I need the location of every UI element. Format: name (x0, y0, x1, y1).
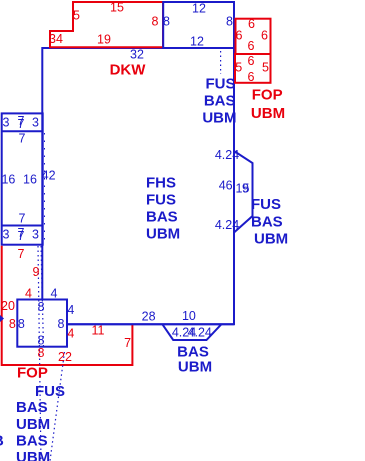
svg-text:UBM: UBM (202, 109, 236, 126)
svg-text:DKW: DKW (110, 61, 147, 78)
svg-text:3: 3 (3, 116, 10, 130)
svg-text:3: 3 (3, 228, 10, 242)
wire: main bottom edge over red (67, 323, 234, 325)
mark: clipped blue triangle at left edge (0, 315, 4, 322)
svg-text:8: 8 (226, 15, 233, 29)
building outline: bottom red shape (FOP) (2, 246, 133, 365)
svg-text:11: 11 (92, 324, 105, 338)
svg-text:FUS: FUS (251, 196, 281, 213)
svg-text:BAS: BAS (146, 208, 178, 225)
svg-text:42: 42 (42, 169, 56, 183)
building outline: bottom trapezoid (162, 324, 221, 340)
svg-text:12: 12 (192, 2, 206, 16)
svg-text:UBM: UBM (178, 358, 212, 375)
svg-text:4: 4 (25, 287, 32, 301)
svg-text:4: 4 (51, 287, 58, 301)
leader dotted line: along left column right edge (44, 133, 46, 244)
svg-text:UBM: UBM (16, 449, 50, 461)
svg-text:32: 32 (130, 48, 144, 62)
wire: band divider 2 (2, 225, 43, 227)
svg-text:34: 34 (49, 32, 63, 46)
svg-text:FOP: FOP (252, 86, 283, 103)
svg-text:19: 19 (97, 33, 111, 47)
svg-text:BAS: BAS (16, 432, 48, 449)
svg-text:8: 8 (152, 15, 159, 29)
svg-text:15: 15 (110, 1, 124, 15)
svg-text:4.24: 4.24 (215, 218, 239, 232)
svg-text:12: 12 (190, 35, 204, 49)
svg-text:9: 9 (33, 265, 40, 279)
building outline: top red L-shape (DKW) (50, 2, 163, 47)
building outline: main blue (FHS FUS BAS UBM) (42, 48, 234, 324)
svg-text:7: 7 (18, 117, 25, 131)
svg-text:8: 8 (18, 317, 25, 331)
svg-text:BAS: BAS (251, 213, 283, 230)
svg-text:5: 5 (73, 9, 80, 23)
svg-text:8: 8 (38, 300, 45, 314)
svg-text:8: 8 (58, 317, 65, 331)
svg-text:6: 6 (248, 17, 255, 31)
svg-text:UBM: UBM (146, 225, 180, 242)
svg-text:BAS: BAS (204, 92, 236, 109)
svg-text:5: 5 (235, 60, 242, 74)
svg-text:10: 10 (182, 309, 196, 323)
leader dotted line: L1b (41, 246, 44, 347)
svg-text:6: 6 (261, 29, 268, 43)
svg-text:16: 16 (23, 173, 37, 187)
svg-text:7: 7 (19, 132, 26, 146)
svg-text:20: 20 (1, 299, 15, 313)
svg-text:B: B (0, 432, 4, 449)
svg-text:4: 4 (67, 327, 74, 341)
svg-text:4.24: 4.24 (215, 148, 239, 162)
svg-text:7: 7 (124, 336, 131, 350)
svg-text:8: 8 (163, 15, 170, 29)
svg-text:9: 9 (242, 181, 249, 195)
svg-text:FHS: FHS (146, 174, 176, 191)
svg-text:6: 6 (248, 70, 255, 84)
svg-text:UBM: UBM (16, 416, 50, 433)
svg-text:UBM: UBM (251, 105, 285, 122)
svg-text:7: 7 (19, 212, 26, 226)
svg-text:22: 22 (58, 350, 72, 364)
building outline: red square 2 (5x6) (235, 54, 271, 83)
building outline: top blue rect 12x8 (163, 2, 234, 48)
svg-text:UBM: UBM (254, 230, 288, 247)
svg-text:3: 3 (32, 116, 39, 130)
building outline: annex box 8x8 (17, 300, 67, 347)
leader dotted line: top rect to FUS/BAS/UBM (220, 51, 222, 74)
svg-text:46: 46 (219, 178, 233, 192)
svg-text:7: 7 (18, 247, 25, 261)
svg-text:FUS: FUS (146, 191, 176, 208)
svg-text:4.24: 4.24 (188, 326, 212, 340)
svg-text:3: 3 (32, 228, 39, 242)
svg-text:4: 4 (67, 303, 74, 317)
svg-text:FUS: FUS (35, 383, 65, 400)
svg-text:7: 7 (18, 229, 25, 243)
svg-text:6: 6 (248, 54, 255, 68)
svg-text:6: 6 (236, 29, 243, 43)
wire: band divider 1 (2, 130, 43, 132)
svg-text:6: 6 (248, 39, 255, 53)
building outline: right bay (234, 151, 253, 233)
svg-text:FOP: FOP (17, 364, 48, 381)
leader dotted line: L1 to bottom text (38, 246, 41, 461)
building outline: red square 1 (6x6) top right (236, 19, 271, 54)
svg-text:8: 8 (38, 346, 45, 360)
leader dotted line: L2 slanted (50, 352, 65, 461)
building outline: left column band lines (2, 113, 43, 244)
svg-text:8: 8 (9, 317, 16, 331)
svg-text:FUS: FUS (206, 75, 236, 92)
svg-text:BAS: BAS (16, 399, 48, 416)
svg-text:16: 16 (1, 173, 15, 187)
svg-text:5: 5 (262, 60, 269, 74)
svg-text:28: 28 (142, 309, 156, 323)
